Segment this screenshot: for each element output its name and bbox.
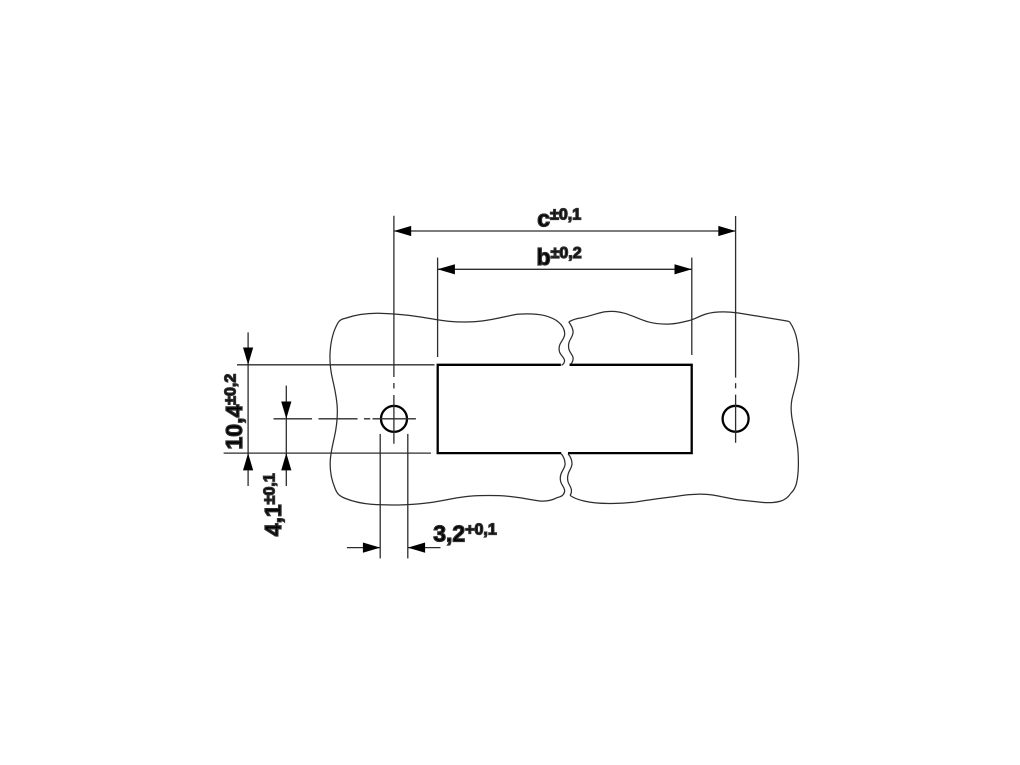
extension line 3,2 right [407, 434, 409, 559]
dimension line 4,1 [285, 386, 287, 486]
arrowhead c right [718, 226, 735, 236]
arrowhead 3,2 right [408, 543, 425, 553]
hole right (circle) [723, 406, 749, 432]
extension line 10,4 bottom [224, 452, 431, 454]
arrowhead 4,1 bottom [281, 453, 291, 470]
arrowhead c left [394, 226, 411, 236]
arrowhead 3,2 left [363, 543, 380, 553]
plate outline right edge [790, 322, 799, 493]
plate break squiggle top-left [558, 322, 565, 365]
center line horizontal left hole [274, 418, 416, 420]
arrowhead b left [438, 264, 455, 274]
arrowhead b right [675, 264, 692, 274]
svg-text:10,4±0,2: 10,4±0,2 [221, 374, 247, 450]
dimension line 10,4 [247, 332, 249, 486]
dimension line 3,2 right tail [408, 547, 441, 549]
svg-text:b±0,2: b±0,2 [537, 244, 582, 270]
cutout rectangle right part (bold) [568, 365, 692, 453]
plate outline bottom-left edge [339, 495, 557, 505]
extension line b right [691, 258, 693, 355]
plate outline top-right edge [569, 311, 790, 324]
center line vertical right hole / extension for c [735, 216, 737, 443]
svg-text:3,2+0,1: 3,2+0,1 [433, 521, 497, 547]
plate break squiggle bottom-right [568, 454, 572, 496]
extension line b left [437, 258, 439, 357]
cutout rectangle left part (bold) [438, 365, 562, 453]
svg-text:4,1±0,1: 4,1±0,1 [260, 473, 286, 536]
extension line 10,4 top [237, 364, 435, 366]
extension line 3,2 left [379, 434, 381, 559]
arrowhead 10,4 top [243, 348, 253, 365]
center line vertical left hole / extension for c [393, 216, 395, 444]
svg-text:c±0,1: c±0,1 [537, 205, 581, 231]
plate break squiggle bottom-left [557, 454, 565, 498]
arrowhead 10,4 bottom [243, 453, 253, 470]
dimension line b [438, 268, 692, 270]
dimension line 3,2 left tail [347, 547, 380, 549]
hole left (circle) [381, 406, 407, 432]
plate outline left edge [330, 322, 339, 495]
plate outline top-left edge [339, 313, 559, 322]
arrowhead 4,1 top [281, 402, 291, 419]
dimension line c [394, 230, 736, 232]
plate break squiggle top-right [568, 322, 573, 365]
plate outline bottom-right edge [570, 493, 791, 503]
